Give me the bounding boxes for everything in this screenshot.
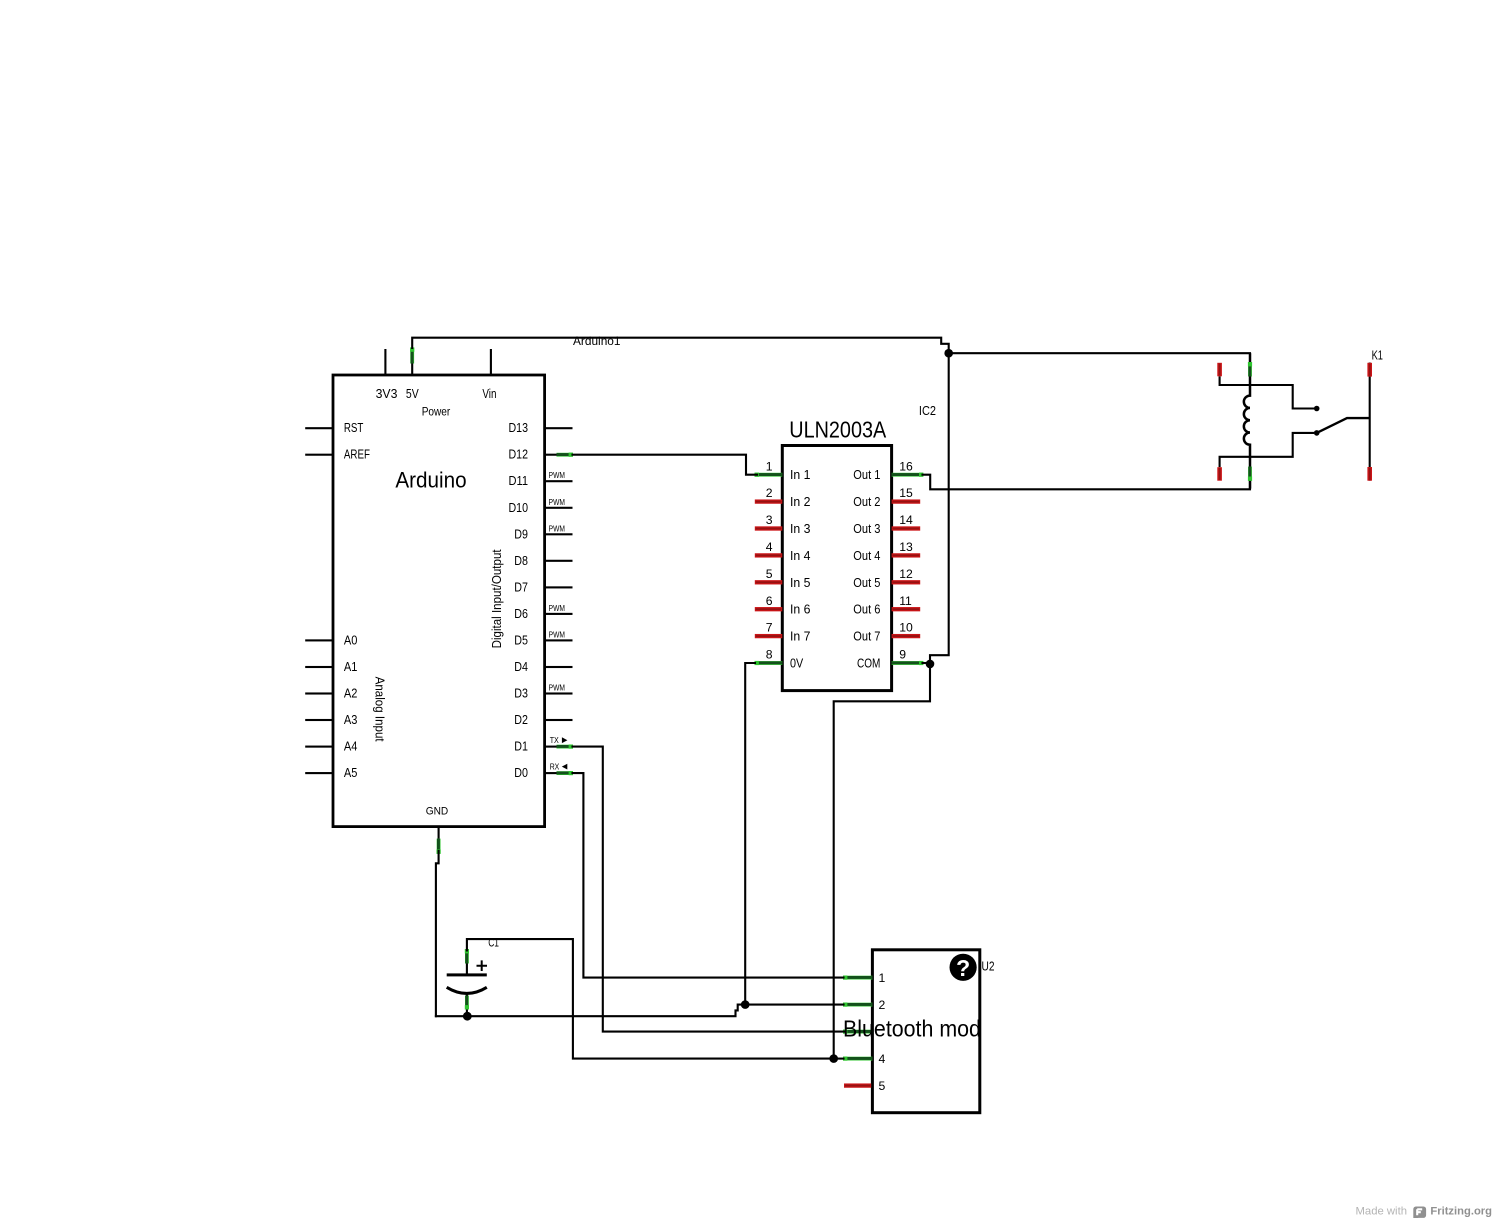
IC2 pin 1 (In 1) bbox=[755, 459, 811, 482]
wire COM node to U2 pin4 node bbox=[834, 664, 930, 1059]
junction COM node bbox=[926, 660, 935, 669]
IC2 pin 15 (Out 2) bbox=[853, 486, 920, 509]
svg-text:D3: D3 bbox=[514, 687, 528, 701]
svg-text:7: 7 bbox=[766, 621, 773, 635]
Arduino label bbox=[395, 468, 466, 493]
svg-text:PWM: PWM bbox=[549, 604, 565, 613]
svg-text:2: 2 bbox=[766, 486, 773, 500]
svg-text:A1: A1 bbox=[344, 660, 358, 674]
svg-text:A5: A5 bbox=[344, 766, 358, 780]
Fritzing footer bbox=[1356, 1206, 1492, 1218]
wire D1 TX to U2 pin3 bbox=[573, 747, 846, 1032]
IC2 pin 12 (Out 5) bbox=[853, 567, 920, 590]
svg-text:Arduino: Arduino bbox=[395, 468, 466, 493]
svg-text:D9: D9 bbox=[514, 527, 528, 541]
net label Arduino1 bbox=[573, 334, 621, 348]
Arduino pin A1 bbox=[305, 660, 357, 674]
Bluetooth module U2 body bbox=[872, 950, 979, 1113]
svg-text:5V: 5V bbox=[406, 387, 419, 401]
wire Arduino1 down to COM node bbox=[930, 353, 949, 664]
Arduino pin A2 bbox=[305, 687, 357, 701]
svg-text:PWM: PWM bbox=[549, 524, 565, 533]
IC2 pin 8 (0V) bbox=[755, 648, 804, 671]
junction U2 pin2 node bbox=[741, 1000, 750, 1009]
svg-text:D8: D8 bbox=[514, 554, 528, 568]
svg-text:TX: TX bbox=[550, 736, 560, 745]
svg-text:Analog Input: Analog Input bbox=[373, 677, 388, 742]
svg-text:Digital Input/Output: Digital Input/Output bbox=[489, 549, 504, 648]
Arduino pin D2 bbox=[373, 334, 1492, 1218]
Arduino pin AREF bbox=[305, 448, 370, 462]
Arduino A1 body bbox=[333, 375, 545, 827]
svg-text:6: 6 bbox=[766, 594, 773, 608]
svg-text:D12: D12 bbox=[509, 448, 529, 462]
Arduino pin Vin bbox=[482, 349, 496, 401]
svg-text:PWM: PWM bbox=[549, 684, 565, 693]
svg-text:14: 14 bbox=[899, 513, 913, 527]
IC2 pin 11 (Out 6) bbox=[853, 594, 920, 617]
IC2 pin 4 (In 4) bbox=[755, 540, 811, 563]
svg-text:RST: RST bbox=[344, 421, 364, 435]
Arduino pin D8 bbox=[373, 334, 1492, 1218]
svg-text:D4: D4 bbox=[514, 660, 528, 674]
svg-text:In 7: In 7 bbox=[790, 630, 811, 644]
svg-text:3: 3 bbox=[766, 513, 773, 527]
svg-text:12: 12 bbox=[899, 567, 913, 581]
svg-text:Power: Power bbox=[422, 404, 451, 418]
wire 0V down to GND node bbox=[745, 663, 755, 1005]
svg-text:D6: D6 bbox=[514, 607, 528, 621]
U2 pin 2 bbox=[843, 998, 886, 1012]
IC2 pin 7 (In 7) bbox=[755, 621, 811, 644]
wire GND rail bbox=[436, 1005, 745, 1017]
svg-text:In 2: In 2 bbox=[790, 495, 811, 509]
wire C1 plus to U2 pin4 bbox=[467, 939, 834, 1059]
U2 reference designator bbox=[982, 959, 995, 974]
svg-text:In 6: In 6 bbox=[790, 603, 811, 617]
svg-text:D5: D5 bbox=[514, 633, 528, 647]
U2 unknown-part icon bbox=[950, 954, 977, 981]
junction C1 minus node bbox=[463, 1012, 472, 1021]
junction Arduino1 bbox=[944, 349, 953, 358]
wire 5V to net Arduino1 bbox=[412, 338, 949, 354]
wire D12 to In1 bbox=[573, 455, 758, 475]
svg-text:U2: U2 bbox=[982, 959, 995, 974]
IC2 pin 10 (Out 7) bbox=[853, 621, 920, 644]
Arduino pin D13 bbox=[373, 334, 1492, 1218]
svg-text:Vin: Vin bbox=[482, 387, 496, 401]
svg-text:PWM: PWM bbox=[549, 498, 565, 507]
IC2 pin 14 (Out 3) bbox=[853, 513, 920, 536]
svg-text:Fritzing.org: Fritzing.org bbox=[1430, 1206, 1492, 1218]
Arduino pin D10 bbox=[373, 334, 1492, 1218]
IC2 pin 5 (In 5) bbox=[755, 567, 811, 590]
Power section label bbox=[422, 404, 451, 418]
svg-text:A3: A3 bbox=[344, 713, 358, 727]
svg-text:13: 13 bbox=[899, 540, 913, 554]
svg-text:15: 15 bbox=[899, 486, 913, 500]
wire Arduino GND drop bbox=[436, 851, 439, 1016]
svg-text:4: 4 bbox=[766, 540, 773, 554]
junction U2 pin4 node bbox=[829, 1054, 838, 1063]
svg-text:Out 4: Out 4 bbox=[853, 549, 880, 563]
svg-text:8: 8 bbox=[766, 648, 773, 662]
svg-text:RX: RX bbox=[550, 762, 560, 771]
Arduino pin A0 bbox=[305, 633, 357, 647]
svg-text:Out 7: Out 7 bbox=[853, 630, 880, 644]
Arduino pin A3 bbox=[305, 713, 357, 727]
Arduino pin RST bbox=[305, 421, 363, 435]
IC2 pin 13 (Out 4) bbox=[853, 540, 920, 563]
svg-text:D13: D13 bbox=[509, 421, 529, 435]
Arduino pin D6 bbox=[373, 334, 1492, 1218]
Digital Input/Output label bbox=[489, 549, 504, 648]
Arduino pin D0 bbox=[373, 334, 1492, 1218]
svg-text:K1: K1 bbox=[1372, 348, 1383, 363]
capacitor C1 bbox=[447, 949, 487, 1016]
svg-text:D0: D0 bbox=[514, 766, 528, 780]
svg-text:1: 1 bbox=[766, 459, 773, 473]
IC2 reference designator bbox=[919, 403, 936, 418]
ULN2003A label bbox=[789, 417, 887, 443]
svg-text:A2: A2 bbox=[344, 687, 358, 701]
Arduino pin D5 bbox=[373, 334, 1492, 1218]
svg-text:D1: D1 bbox=[514, 740, 528, 754]
relay K1 contact pin top bbox=[1217, 363, 1319, 412]
relay K1 coil bbox=[1244, 353, 1252, 488]
Arduino pin A4 bbox=[305, 740, 357, 754]
Arduino pin 3V3 bbox=[376, 349, 398, 401]
svg-text:In 4: In 4 bbox=[790, 549, 811, 563]
svg-text:In 3: In 3 bbox=[790, 522, 811, 536]
wire D0 RX to U2 pin1 bbox=[573, 773, 844, 978]
Arduino pin D11 bbox=[373, 334, 1492, 1218]
Arduino pin D12 bbox=[373, 334, 1492, 1218]
svg-text:A0: A0 bbox=[344, 633, 358, 647]
svg-text:COM: COM bbox=[857, 657, 880, 671]
svg-text:Out 3: Out 3 bbox=[853, 522, 880, 536]
wire GND node to U2 pin2 bbox=[745, 1004, 843, 1006]
Analog Input label bbox=[373, 677, 388, 742]
Arduino pin D7 bbox=[373, 334, 1492, 1218]
IC2 pin 2 (In 2) bbox=[755, 486, 811, 509]
IC2 pin 9 (COM) bbox=[857, 648, 923, 671]
svg-text:Out 2: Out 2 bbox=[853, 495, 880, 509]
relay K1 switch lever and pole bbox=[1317, 363, 1372, 481]
svg-text:AREF: AREF bbox=[344, 448, 370, 462]
svg-text:4: 4 bbox=[879, 1052, 886, 1066]
wire COM to node bbox=[923, 662, 931, 664]
svg-text:10: 10 bbox=[899, 621, 913, 635]
svg-text:D10: D10 bbox=[509, 501, 529, 515]
svg-text:Made with: Made with bbox=[1356, 1206, 1408, 1218]
svg-text:2: 2 bbox=[879, 998, 886, 1012]
svg-text:1: 1 bbox=[879, 971, 886, 985]
IC2 pin 16 (Out 1) bbox=[853, 459, 923, 482]
Arduino pin D3 bbox=[373, 334, 1492, 1218]
svg-text:Arduino1: Arduino1 bbox=[573, 334, 621, 348]
svg-text:D11: D11 bbox=[509, 474, 529, 488]
svg-text:Out 5: Out 5 bbox=[853, 576, 880, 590]
svg-text:5: 5 bbox=[766, 567, 773, 581]
svg-text:9: 9 bbox=[899, 648, 906, 662]
Arduino pin A5 bbox=[305, 766, 357, 780]
op-amp IC2 ULN2003A body bbox=[782, 446, 891, 691]
svg-text:Out 1: Out 1 bbox=[853, 468, 880, 482]
Arduino pin 5V bbox=[406, 347, 419, 401]
svg-text:ULN2003A: ULN2003A bbox=[789, 417, 887, 443]
svg-text:11: 11 bbox=[899, 594, 912, 608]
svg-text:GND: GND bbox=[426, 805, 449, 817]
svg-text:?: ? bbox=[956, 955, 970, 981]
wire Out1 to relay coil bottom bbox=[923, 475, 1251, 490]
C1 reference designator bbox=[488, 937, 499, 949]
svg-text:0V: 0V bbox=[790, 657, 804, 671]
Arduino pin D1 bbox=[373, 334, 1492, 1218]
svg-text:Out 6: Out 6 bbox=[853, 603, 880, 617]
svg-text:In 5: In 5 bbox=[790, 576, 811, 590]
svg-text:3V3: 3V3 bbox=[376, 387, 398, 401]
svg-text:PWM: PWM bbox=[549, 471, 565, 480]
svg-text:D2: D2 bbox=[514, 713, 528, 727]
U2 pin 4 bbox=[843, 1052, 886, 1066]
IC2 pin 6 (In 6) bbox=[755, 594, 811, 617]
IC2 pin 3 (In 3) bbox=[755, 513, 811, 536]
K1 reference designator bbox=[1372, 348, 1383, 363]
U2 pin 5 bbox=[844, 1079, 886, 1093]
svg-text:16: 16 bbox=[899, 459, 913, 473]
U2 pin 1 bbox=[843, 971, 886, 985]
svg-text:PWM: PWM bbox=[549, 630, 565, 639]
svg-text:A4: A4 bbox=[344, 740, 358, 754]
svg-text:D7: D7 bbox=[514, 580, 528, 594]
svg-text:5: 5 bbox=[879, 1079, 886, 1093]
U2 pin 3 bbox=[843, 1030, 872, 1034]
GND pin bbox=[426, 805, 449, 854]
relay K1 contact pin bottom bbox=[1217, 430, 1319, 481]
svg-text:IC2: IC2 bbox=[919, 403, 936, 418]
svg-text:In 1: In 1 bbox=[790, 468, 811, 482]
wire node to U2 pin4 bbox=[834, 1058, 844, 1060]
Arduino pin D9 bbox=[373, 334, 1492, 1218]
Arduino pin D4 bbox=[373, 334, 1492, 1218]
wire Arduino1 to relay coil top bbox=[949, 352, 1250, 354]
